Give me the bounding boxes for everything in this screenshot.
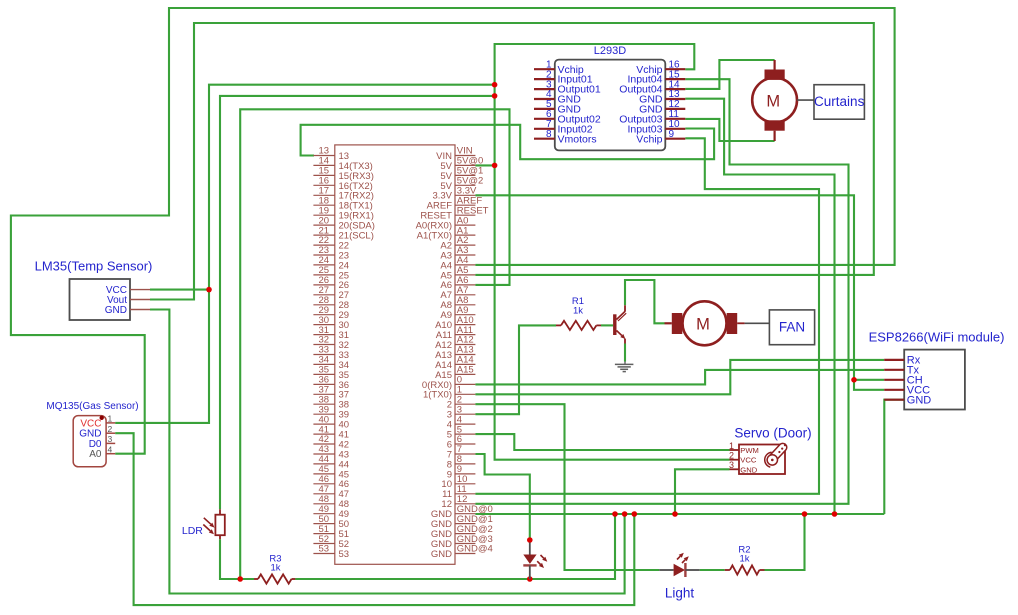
wire net-D12 Arduino 12 to L293D Input04(15) xyxy=(475,79,848,504)
pin 43 (Arduino left) xyxy=(313,453,334,455)
svg-text:3: 3 xyxy=(108,434,113,444)
svg-text:53: 53 xyxy=(339,549,350,560)
pin 14 L293D right: Output04 xyxy=(665,88,685,90)
wire Arduino 5V@0 to 5V trunk xyxy=(475,164,494,166)
pin 1 (Arduino right) xyxy=(455,393,475,395)
pin 24 (Arduino left) xyxy=(313,264,334,266)
node 5V@0 junction xyxy=(492,163,498,169)
wire net-GND bus xyxy=(475,513,884,515)
svg-text:Vmotors: Vmotors xyxy=(558,133,597,145)
MQ135 gas sensor body xyxy=(73,416,106,467)
pin 48 (Arduino left) xyxy=(313,503,334,505)
pin 1 servo: PWM xyxy=(730,449,740,451)
pin A15 (Arduino right) xyxy=(455,373,475,375)
wire net-GND riser to R3 rail xyxy=(295,514,615,579)
pin GND ESP8266 xyxy=(884,399,904,401)
svg-text:MQ135(Gas Sensor): MQ135(Gas Sensor) xyxy=(46,401,138,412)
MQ135 pin1 marker dot xyxy=(100,416,104,420)
pin A14 (Arduino right) xyxy=(455,363,475,365)
pin GND LM35 xyxy=(130,309,150,311)
pin 9 L293D right: Vchip xyxy=(665,138,685,140)
Arduino Mega body xyxy=(335,145,455,564)
wire LDR bottom to node LDR/R3 xyxy=(220,539,254,579)
pin 29 (Arduino left) xyxy=(313,314,334,316)
pin A11 (Arduino right) xyxy=(455,334,475,336)
pin 4 MQ135: A0 xyxy=(106,453,115,455)
pin 16 L293D right: Vchip xyxy=(665,68,685,70)
node ESP CH/VCC junction xyxy=(851,377,857,383)
pin A1 (Arduino right) xyxy=(455,234,475,236)
pin 34 (Arduino left) xyxy=(313,363,334,365)
svg-text:LDR: LDR xyxy=(182,525,203,537)
pin A12 (Arduino right) xyxy=(455,344,475,346)
resistor R2 xyxy=(725,569,730,571)
svg-text:GND: GND xyxy=(105,305,127,316)
svg-text:1k: 1k xyxy=(270,563,280,574)
ESP8266 WiFi module body xyxy=(904,350,965,410)
motor M1 (Curtains) xyxy=(773,60,775,70)
wire R1 to Q1 base xyxy=(601,324,613,326)
wire R2 to GND bus xyxy=(765,514,805,570)
node GND bus / LM35 riser xyxy=(622,511,628,517)
pin 50 (Arduino left) xyxy=(313,523,334,525)
pin 5 (Arduino right) xyxy=(455,433,475,435)
pin 44 (Arduino left) xyxy=(313,463,334,465)
wire net-5V branch to LM35/MQ135 VCC xyxy=(115,85,494,423)
svg-text:2: 2 xyxy=(729,451,734,461)
node GND bus / R3 riser xyxy=(612,511,618,517)
pin 22 (Arduino left) xyxy=(313,244,334,246)
node GND bus / MQ135 riser xyxy=(632,511,638,517)
pin 3.3V (Arduino right) xyxy=(455,194,475,196)
pin A2 (Arduino right) xyxy=(455,244,475,246)
pin 25 (Arduino left) xyxy=(313,274,334,276)
pin 28 (Arduino left) xyxy=(313,304,334,306)
pin 17 (Arduino left) xyxy=(313,194,334,196)
pin 11 L293D right: Output03 xyxy=(665,118,685,120)
pin 2 servo: VCC xyxy=(730,459,740,461)
servo horn glyph xyxy=(765,442,789,468)
wire net-D2 Arduino 2 to Light LED xyxy=(475,404,659,570)
LDR light arrow 2 xyxy=(203,525,210,531)
pin 5V@1 (Arduino right) xyxy=(455,174,475,176)
motor M2 (FAN) xyxy=(665,322,672,324)
pin 37 (Arduino left) xyxy=(313,393,334,395)
wire net-D3 Arduino 3 to R1 xyxy=(475,325,556,414)
svg-text:M: M xyxy=(696,316,710,334)
svg-text:4: 4 xyxy=(108,445,113,455)
pin 13 L293D right: GND xyxy=(665,98,685,100)
LDR body xyxy=(219,509,221,514)
LED D2 light arrow 2 xyxy=(682,560,685,563)
pin 35 (Arduino left) xyxy=(313,373,334,375)
Q1 emitter with arrow xyxy=(617,331,622,336)
pin VCC ESP8266 xyxy=(884,389,904,391)
pin A6 (Arduino right) xyxy=(455,284,475,286)
wire net-5V branch to LDR xyxy=(220,96,495,509)
pin AREF (Arduino right) xyxy=(455,204,475,206)
svg-text:FAN: FAN xyxy=(779,320,805,335)
wire L293D GND(13) to GND bus xyxy=(685,99,834,514)
pin 1 MQ135: VCC xyxy=(106,422,115,424)
pin 36 (Arduino left) xyxy=(313,383,334,385)
pin VIN (Arduino right) xyxy=(455,155,475,157)
pin 42 (Arduino left) xyxy=(313,443,334,445)
servo (Door) body xyxy=(739,445,785,475)
pin 47 (Arduino left) xyxy=(313,493,334,495)
wire net-A4 Arduino A4 to MQ135 A0 xyxy=(11,8,895,454)
LDR light arrow 1 xyxy=(204,518,211,524)
wire net-5V trunk L293D.16 to servo VCC xyxy=(495,44,730,460)
pin 3 L293D left: Output01 xyxy=(534,88,555,90)
svg-text:1: 1 xyxy=(729,441,734,451)
pin 3 MQ135: D0 xyxy=(106,442,115,444)
node LM35 VCC junction xyxy=(206,287,212,293)
pin Tx ESP8266 xyxy=(884,369,904,371)
pin 12 (Arduino right) xyxy=(455,503,475,505)
pin 2 L293D left: Input01 xyxy=(534,78,555,80)
pin 49 (Arduino left) xyxy=(313,513,334,515)
node GND bus / servo GND xyxy=(672,511,678,517)
svg-text:M: M xyxy=(766,92,780,110)
wire net-RX0 Arduino 0(RX0) to ESP8266 Tx xyxy=(475,370,884,385)
pin 38 (Arduino left) xyxy=(313,403,334,405)
LED D1 light arrow 2 xyxy=(537,561,540,564)
svg-text:3: 3 xyxy=(729,460,734,470)
pin GND@2 (Arduino right) xyxy=(455,533,475,535)
pin 27 (Arduino left) xyxy=(313,294,334,296)
LED D2 light arrow 1 xyxy=(677,556,680,559)
svg-text:Vchip: Vchip xyxy=(636,133,662,145)
svg-text:53: 53 xyxy=(319,544,330,555)
pin A10 (Arduino right) xyxy=(455,324,475,326)
wire net-3V3 branch to ESP8266 VCC xyxy=(854,380,884,390)
pin 2 (Arduino right) xyxy=(455,403,475,405)
svg-text:9: 9 xyxy=(669,129,675,140)
pin A7 (Arduino right) xyxy=(455,294,475,296)
svg-text:2: 2 xyxy=(108,424,113,434)
wire net-TX0 Arduino 1(TX0) to ESP8266 Rx xyxy=(475,360,884,394)
pin Rx ESP8266 xyxy=(884,359,904,361)
pin 20 (Arduino left) xyxy=(313,224,334,226)
pin RESET (Arduino right) xyxy=(455,214,475,216)
pin 39 (Arduino left) xyxy=(313,413,334,415)
pin 5V@2 (Arduino right) xyxy=(455,184,475,186)
pin 2 MQ135: GND xyxy=(106,432,115,434)
pin GND@3 (Arduino right) xyxy=(455,543,475,545)
pin Vout LM35 xyxy=(130,299,150,301)
op-amp/driver IC L293D body xyxy=(555,60,666,151)
pin 11 (Arduino right) xyxy=(455,493,475,495)
LED D2 Light xyxy=(659,569,673,571)
svg-text:PWM: PWM xyxy=(740,446,759,455)
wire net-GND to ESP8266 GND xyxy=(884,400,904,514)
pin 8 (Arduino right) xyxy=(455,463,475,465)
svg-text:GND: GND xyxy=(907,395,932,407)
svg-text:1: 1 xyxy=(108,414,113,424)
ground xyxy=(624,362,626,365)
pin 15 L293D right: Input04 xyxy=(665,78,685,80)
pin GND@1 (Arduino right) xyxy=(455,523,475,525)
pin 8 L293D left: Vmotors xyxy=(534,138,555,140)
wire servo GND to GND bus xyxy=(675,469,730,514)
pin 9 (Arduino right) xyxy=(455,473,475,475)
wire R3 rail segment to GND riser xyxy=(295,578,615,580)
pin CH ESP8266 xyxy=(884,379,904,381)
pin 33 (Arduino left) xyxy=(313,354,334,356)
wire net-GND rail to MQ135 GND xyxy=(115,433,634,605)
svg-text:1k: 1k xyxy=(573,306,583,317)
wire net-D11 Arduino 11 to L293D Vchip(9) xyxy=(475,138,819,494)
node GND bus / L293D GND xyxy=(832,511,838,517)
pin A9 (Arduino right) xyxy=(455,314,475,316)
pin 21 (Arduino left) xyxy=(313,234,334,236)
pin 30 (Arduino left) xyxy=(313,324,334,326)
pin 6 L293D left: Output02 xyxy=(534,118,555,120)
pin A13 (Arduino right) xyxy=(455,354,475,356)
pin VCC LM35 xyxy=(130,289,150,291)
pin 10 (Arduino right) xyxy=(455,483,475,485)
node GND bus / R2 xyxy=(802,511,808,517)
pin 13 (Arduino left) xyxy=(313,155,334,157)
pin 5 L293D left: GND xyxy=(534,108,555,110)
wire net-D5 Arduino 5 to servo PWM xyxy=(475,434,729,450)
svg-text:LM35(Temp Sensor): LM35(Temp Sensor) xyxy=(35,259,153,274)
node 5V/LDR branch junction xyxy=(492,93,498,99)
pin 41 (Arduino left) xyxy=(313,433,334,435)
wire net-D13 Arduino 13 to L293D Input03(10) xyxy=(301,125,714,159)
pin 0 (Arduino right) xyxy=(455,383,475,385)
resistor R3 xyxy=(254,578,258,580)
pin A0 (Arduino right) xyxy=(455,224,475,226)
pin 53 (Arduino left) xyxy=(313,553,334,555)
Curtains box xyxy=(814,85,864,120)
pin 26 (Arduino left) xyxy=(313,284,334,286)
svg-text:8: 8 xyxy=(546,129,552,140)
LM35 temp sensor body xyxy=(70,279,131,320)
wire Q1 emitter to ground xyxy=(624,344,626,362)
wire net-GND rail to LM35 GND xyxy=(150,310,625,594)
svg-text:GND: GND xyxy=(740,465,757,474)
wire Q1 collector to fan motor xyxy=(625,280,665,323)
pin 7 L293D left: Input02 xyxy=(534,128,555,130)
pin 18 (Arduino left) xyxy=(313,204,334,206)
pin 7 (Arduino right) xyxy=(455,453,475,455)
pin 12 L293D right: GND xyxy=(665,108,685,110)
pin 14 (Arduino left) xyxy=(313,164,334,166)
pin 3 (Arduino right) xyxy=(455,413,475,415)
wire Light LED to R2 xyxy=(700,569,725,571)
svg-text:ESP8266(WiFi module): ESP8266(WiFi module) xyxy=(869,330,1005,345)
pin A5 (Arduino right) xyxy=(455,274,475,276)
pin 32 (Arduino left) xyxy=(313,344,334,346)
pin GND@4 (Arduino right) xyxy=(455,553,475,555)
wire net-3V3 Arduino 3.3V to ESP8266 CH xyxy=(475,195,884,379)
resistor R1 xyxy=(556,324,561,326)
svg-text:A0: A0 xyxy=(89,449,102,460)
pin 19 (Arduino left) xyxy=(313,214,334,216)
pin 15 (Arduino left) xyxy=(313,174,334,176)
transistor Q1 NPN xyxy=(613,314,616,335)
svg-text:L293D: L293D xyxy=(594,45,626,57)
pin A8 (Arduino right) xyxy=(455,304,475,306)
FAN box xyxy=(769,310,814,345)
pin GND@0 (Arduino right) xyxy=(455,513,475,515)
wire net-A6 Arduino A6 to LDR divider node xyxy=(240,109,509,579)
pin 4 L293D left: GND xyxy=(534,98,555,100)
Curtains lead xyxy=(797,99,814,101)
svg-text:1k: 1k xyxy=(739,554,749,565)
svg-text:Curtains: Curtains xyxy=(814,94,865,109)
wire L293D Output04(14) to curtains motor xyxy=(685,60,774,89)
pin 51 (Arduino left) xyxy=(313,533,334,535)
pin 1 L293D left: Vchip xyxy=(534,68,555,70)
pin 45 (Arduino left) xyxy=(313,473,334,475)
node LDR/R3/A6 junction xyxy=(237,576,243,582)
svg-text:VCC: VCC xyxy=(740,456,757,465)
pin 40 (Arduino left) xyxy=(313,423,334,425)
pin 46 (Arduino left) xyxy=(313,483,334,485)
wire net-A5 Arduino A5 to LM35 Vout xyxy=(150,23,874,300)
node LED1 cathode junction xyxy=(527,576,533,582)
LED D1 light arrow 1 xyxy=(541,555,544,558)
wire LM35 VCC pin to 5V branch xyxy=(150,289,209,291)
pin 4 (Arduino right) xyxy=(455,423,475,425)
pin 5V@0 (Arduino right) xyxy=(455,164,475,166)
FAN lead xyxy=(737,322,744,324)
pin 23 (Arduino left) xyxy=(313,254,334,256)
wire net-D7 Arduino 7 to LED1 xyxy=(475,454,529,540)
svg-text:GND: GND xyxy=(431,549,452,560)
pin 3 servo: GND xyxy=(730,468,740,470)
wire L293D Output03(11) to curtains motor xyxy=(685,119,774,141)
node 5V/LM35 branch junction xyxy=(492,82,498,88)
svg-text:GND@4: GND@4 xyxy=(457,544,493,555)
pin 6 (Arduino right) xyxy=(455,443,475,445)
pin 16 (Arduino left) xyxy=(313,184,334,186)
node LED1 anode junction xyxy=(527,537,533,543)
pin A4 (Arduino right) xyxy=(455,264,475,266)
svg-text:Light: Light xyxy=(665,586,695,601)
pin 52 (Arduino left) xyxy=(313,543,334,545)
LED D1 xyxy=(529,543,531,555)
pin A3 (Arduino right) xyxy=(455,254,475,256)
pin 10 L293D right: Input03 xyxy=(665,128,685,130)
svg-text:Servo (Door): Servo (Door) xyxy=(734,426,811,441)
pin 31 (Arduino left) xyxy=(313,334,334,336)
